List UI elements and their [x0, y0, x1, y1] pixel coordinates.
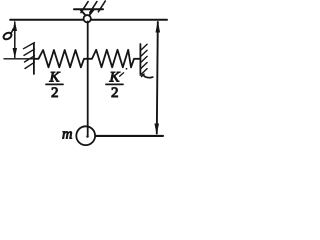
- dimension a: top arrowhead: [13, 20, 17, 31]
- K arm flourish (right fraction): [120, 73, 124, 76]
- svg-text:2: 2: [111, 85, 119, 101]
- svg-text:K: K: [109, 70, 121, 86]
- hatch mark 2 (top anchor): [90, 2, 97, 13]
- label l (rotated, length dimension): [142, 74, 153, 77]
- dimension a: bottom arrowhead: [13, 48, 17, 59]
- svg-text:K: K: [49, 70, 61, 86]
- ink speck near right K: [126, 68, 128, 70]
- left wall hatch 3: [25, 56, 35, 62]
- right wall hatch 3: [140, 56, 147, 63]
- right wall hatch 2: [140, 50, 147, 57]
- rod (vertical pendulum bar): [87, 22, 89, 138]
- dimension a: vertical line: [14, 22, 16, 58]
- left wall hatch 1: [24, 43, 35, 49]
- left spring K/2: [34, 50, 88, 67]
- right wall: [139, 44, 141, 74]
- svg-text:m: m: [62, 127, 72, 143]
- fixed support bar (top anchor): [74, 8, 103, 10]
- bottom horizontal line: [95, 135, 163, 137]
- right wall hatch 4: [140, 63, 147, 70]
- dimension l: top arrowhead: [156, 21, 161, 33]
- hatch mark 1 (top anchor): [81, 2, 88, 13]
- right wall hatch 1: [140, 44, 147, 51]
- svg-text:2: 2: [51, 85, 59, 101]
- right fraction bar: [106, 83, 123, 85]
- left wall hatch 4: [25, 62, 34, 68]
- ceiling line (top horizontal): [10, 19, 167, 21]
- hatch mark 3 (top anchor): [98, 1, 105, 12]
- dimension l: vertical line: [157, 22, 158, 134]
- pin circle of pivot: [84, 15, 91, 22]
- rod end inside mass: [87, 127, 89, 137]
- right spring K/2: [88, 50, 141, 68]
- extension line at spring level: [4, 58, 36, 60]
- label a (rotated): [2, 29, 13, 41]
- pivot triangle left leg: [81, 10, 86, 16]
- left fraction bar: [46, 83, 63, 85]
- dimension l: bottom arrowhead: [154, 124, 159, 135]
- mass circle m: [76, 126, 95, 145]
- right wall hatch 5: [140, 69, 147, 76]
- pivot triangle right leg: [89, 10, 94, 16]
- left wall hatch 2: [24, 49, 34, 55]
- pivot dot at rod end: [86, 135, 88, 137]
- left wall: [33, 44, 35, 74]
